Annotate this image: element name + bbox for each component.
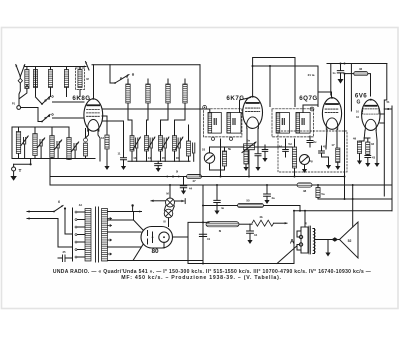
label 80: [151, 248, 159, 255]
wire screen vert: [350, 64, 352, 112]
wire rect out: [173, 222, 210, 237]
svg-text:5a: 5a: [321, 192, 325, 196]
resistor 47: [187, 174, 202, 183]
label pad 16: [176, 156, 180, 160]
svg-text:6: 6: [58, 200, 60, 204]
switch 6 mains: [53, 200, 72, 234]
svg-text:6Q7G: 6Q7G: [299, 95, 318, 102]
capacitor 54b2: [279, 139, 288, 157]
trimmer C1: [21, 136, 28, 159]
svg-text:7l: 7l: [305, 222, 307, 226]
ground T: [10, 176, 17, 181]
trimmer C4: [71, 142, 78, 159]
svg-text:54: 54: [279, 145, 283, 149]
ground 6K7b: [255, 167, 260, 171]
label 6Q7G: [299, 95, 318, 102]
band switch S2: [41, 114, 53, 123]
wire top bus 2: [327, 63, 387, 65]
label pad 13: [133, 156, 137, 160]
ground 6K7a: [243, 164, 248, 171]
wire 6Q7 grid feed: [317, 66, 319, 107]
label 6K8G: [72, 95, 90, 102]
svg-text:5c: 5c: [313, 140, 317, 144]
ground 42: [365, 163, 370, 167]
switch 5f: [300, 155, 313, 174]
svg-text:53: 53: [202, 148, 206, 152]
svg-text:16: 16: [176, 156, 180, 160]
wire 6K8 plate line: [103, 109, 210, 113]
coil Losc1: [126, 79, 130, 109]
svg-text:80: 80: [151, 248, 159, 255]
label 21: [308, 73, 315, 77]
wire coil top link: [12, 127, 69, 159]
resistor R46: [345, 67, 371, 96]
trimmer Cp2: [148, 137, 155, 161]
svg-text:T: T: [19, 168, 22, 174]
coil Lp4: [173, 103, 186, 161]
svg-text:12: 12: [101, 136, 105, 140]
wire filter vert: [133, 185, 204, 261]
svg-text:51: 51: [386, 100, 390, 104]
wire padder bus: [128, 160, 190, 162]
choke 61: [206, 222, 250, 233]
wire 6K8 grid cap: [93, 65, 95, 99]
potentiometer 5e: [242, 139, 256, 153]
coil Lp2: [145, 103, 149, 161]
wire IFT2 feed: [269, 66, 271, 107]
svg-text:44: 44: [254, 233, 258, 237]
wire 6Q7 right down: [344, 73, 385, 200]
svg-text:G: G: [357, 99, 361, 105]
coil L1b: [48, 68, 52, 97]
lamp P2: [163, 206, 174, 227]
trimmer C2: [37, 138, 44, 159]
wire bus B3 right: [312, 184, 392, 186]
resistor 12: [101, 116, 109, 166]
wire pot down: [248, 150, 250, 177]
svg-text:6K8G: 6K8G: [72, 95, 90, 102]
svg-text:21 ta: 21 ta: [308, 73, 315, 77]
coil Lp3: [159, 103, 169, 161]
trimmer Cp3: [162, 137, 169, 161]
phono jack: [166, 170, 181, 178]
ground 12: [104, 166, 109, 170]
wire 6Q7 pins: [326, 129, 337, 149]
IF transformer T2: [272, 105, 318, 137]
wire oscillator bus: [85, 62, 200, 71]
wire right vert 51: [384, 64, 392, 197]
wire 6Q7 cap line: [330, 64, 332, 96]
antenna: [16, 65, 26, 106]
wire OT sec: [313, 229, 332, 254]
wire 6Q7 top cap: [318, 92, 332, 98]
voltage selector: [73, 203, 86, 261]
IF transformer T1: [203, 98, 251, 141]
wire bus B2 left: [50, 176, 187, 178]
wire OT feed: [294, 206, 392, 212]
svg-text:5g: 5g: [309, 159, 313, 163]
transformer core: [96, 207, 99, 262]
svg-text:47: 47: [192, 179, 196, 183]
resistor 48: [297, 183, 312, 193]
ground C21: [338, 79, 344, 84]
trimmer Cp4: [176, 137, 183, 161]
coil L1ant: [20, 67, 30, 99]
wire bus B3 left: [50, 184, 297, 186]
tube 6K7G: [243, 96, 263, 129]
svg-text:6K7G: 6K7G: [226, 95, 244, 102]
capacitor 45: [319, 145, 329, 165]
svg-text:4a: 4a: [271, 196, 275, 200]
terminal P1: [12, 102, 42, 122]
resistor 6K7 cathode: [244, 150, 248, 164]
label A output: [290, 240, 295, 246]
svg-text:11: 11: [118, 152, 121, 156]
svg-text:1s: 1s: [332, 71, 336, 75]
svg-text:13: 13: [133, 156, 137, 160]
wire IFT1 bottom: [220, 139, 222, 177]
resistor 49: [353, 137, 364, 161]
coil L2c: [50, 127, 54, 159]
lamp P1: [166, 184, 175, 207]
wire plate right bus: [380, 106, 392, 211]
capacitor C21: [332, 64, 343, 79]
transformer primary: [85, 209, 91, 262]
capacitor 43: [365, 155, 376, 163]
capacitor 6K7 cathode: [255, 154, 261, 167]
resistor 5a: [316, 184, 392, 199]
coil L1c: [64, 68, 68, 97]
capacitor pad gnd: [155, 161, 162, 172]
svg-text:35: 35: [63, 250, 66, 254]
coil L1d shielded: [76, 68, 90, 97]
coil Losc2: [146, 79, 150, 109]
wire 6V6 pins: [356, 110, 377, 163]
coil L2a: [16, 127, 20, 159]
svg-text:45: 45: [323, 145, 327, 149]
svg-text:5l: 5l: [176, 170, 179, 174]
capacitor 44: [247, 224, 258, 244]
tube 6K8G: [84, 98, 103, 131]
svg-text:55: 55: [246, 199, 250, 203]
svg-text:42: 42: [371, 142, 375, 146]
label 6V6G: [355, 93, 367, 106]
wire 6K7 pins: [247, 128, 258, 153]
resistor 42: [364, 138, 374, 155]
wire bus B2 right: [202, 176, 345, 178]
ground 17: [335, 166, 340, 170]
svg-text:5e: 5e: [247, 139, 251, 143]
wire mains 2: [58, 219, 73, 248]
capacitor 41: [199, 234, 210, 241]
svg-text:17: 17: [331, 143, 335, 147]
trimmer C3: [54, 140, 61, 159]
OT terminals: [297, 227, 303, 253]
osc switch S3: [110, 65, 134, 84]
trimmer Cp1: [133, 137, 140, 161]
capacitor 54: [307, 136, 317, 147]
svg-text:14: 14: [148, 156, 152, 160]
svg-text:48: 48: [303, 189, 307, 193]
ground 11: [121, 166, 126, 170]
svg-text:49: 49: [353, 137, 357, 141]
wire OT left: [304, 211, 306, 227]
ground 49: [357, 161, 362, 165]
wire grid line 1: [53, 101, 85, 103]
transformer secondary: [102, 209, 112, 262]
wire AF line2: [255, 146, 293, 148]
svg-text:52: 52: [348, 239, 352, 243]
coil Lp5: [187, 125, 195, 161]
detector dashed box: [278, 131, 347, 172]
wire antenna bus: [25, 65, 86, 96]
coil L2d: [67, 127, 71, 160]
wire 6K8 pins: [86, 130, 101, 161]
svg-text:15: 15: [162, 156, 166, 160]
wire AF line: [210, 147, 245, 170]
svg-text:8l: 8l: [163, 220, 165, 224]
output transformer: [301, 222, 315, 255]
wire osc feed down: [199, 65, 201, 177]
resistor 5d AVC: [288, 139, 296, 177]
terminal T: [12, 159, 32, 176]
svg-text:43: 43: [372, 156, 376, 160]
coil 6K8 cathode: [84, 129, 88, 159]
wire 6K7 plate loop: [253, 58, 295, 107]
wire bus feed: [49, 159, 51, 186]
wire grid line 2: [53, 117, 85, 119]
capacitor 4a: [264, 184, 275, 204]
resistor 5b: [222, 147, 231, 166]
wire speaker top: [352, 184, 354, 227]
capacitor 35: [58, 250, 73, 262]
resistor 17: [331, 143, 340, 166]
capacitor 4l: [180, 177, 192, 195]
label pad 15: [162, 156, 166, 160]
svg-text:4b: 4b: [259, 215, 263, 219]
svg-text:P1: P1: [12, 102, 16, 106]
svg-text:46: 46: [359, 67, 363, 71]
node A: [25, 84, 29, 90]
capacitor 54b: [262, 145, 268, 162]
svg-text:5b: 5b: [228, 147, 232, 151]
resistor 4b: [250, 215, 287, 226]
svg-text:44: 44: [189, 187, 193, 191]
tube 6Q7G: [322, 97, 341, 130]
mains plug: [27, 210, 58, 220]
coil L1a: [33, 70, 37, 97]
svg-text:41: 41: [207, 237, 211, 241]
svg-text:UNDA RADIO. — « Quadri’Unda 54: UNDA RADIO. — « Quadri’Unda 541 ». — I° …: [53, 269, 371, 275]
tube 6V6G: [362, 99, 380, 131]
coil Losc3: [166, 79, 170, 109]
wire top bus 1: [252, 65, 319, 67]
wire sec taps: [108, 204, 144, 260]
capacitor 11: [102, 121, 127, 166]
band switch S1: [36, 96, 54, 105]
coil Losc4: [183, 79, 187, 109]
svg-text:4A: 4A: [79, 203, 82, 207]
svg-text:4e: 4e: [221, 206, 225, 210]
resistor 55: [203, 199, 300, 208]
lamp arrows: [151, 199, 185, 204]
ground OT: [325, 240, 330, 257]
speaker 52: [332, 222, 359, 258]
svg-text:6l: 6l: [219, 229, 222, 233]
wire RF bottom bus: [12, 158, 95, 160]
meter 53: [202, 147, 216, 163]
svg-text:MF: 450 kc/s. – Produzione 193: MF: 450 kc/s. – Produzione 1938-39. – (V…: [121, 275, 282, 281]
tube 80: [141, 227, 173, 249]
coil Lp1: [128, 103, 134, 161]
svg-text:5d: 5d: [288, 142, 292, 146]
wire bottom return: [188, 210, 297, 265]
coil L2b: [33, 127, 37, 159]
capacitor 40: [214, 184, 225, 215]
label pad 14: [148, 156, 152, 160]
label 6K7G: [226, 95, 244, 102]
ground 6V6k: [374, 163, 379, 167]
wire rect heater: [163, 242, 165, 248]
ground 45: [326, 165, 331, 169]
